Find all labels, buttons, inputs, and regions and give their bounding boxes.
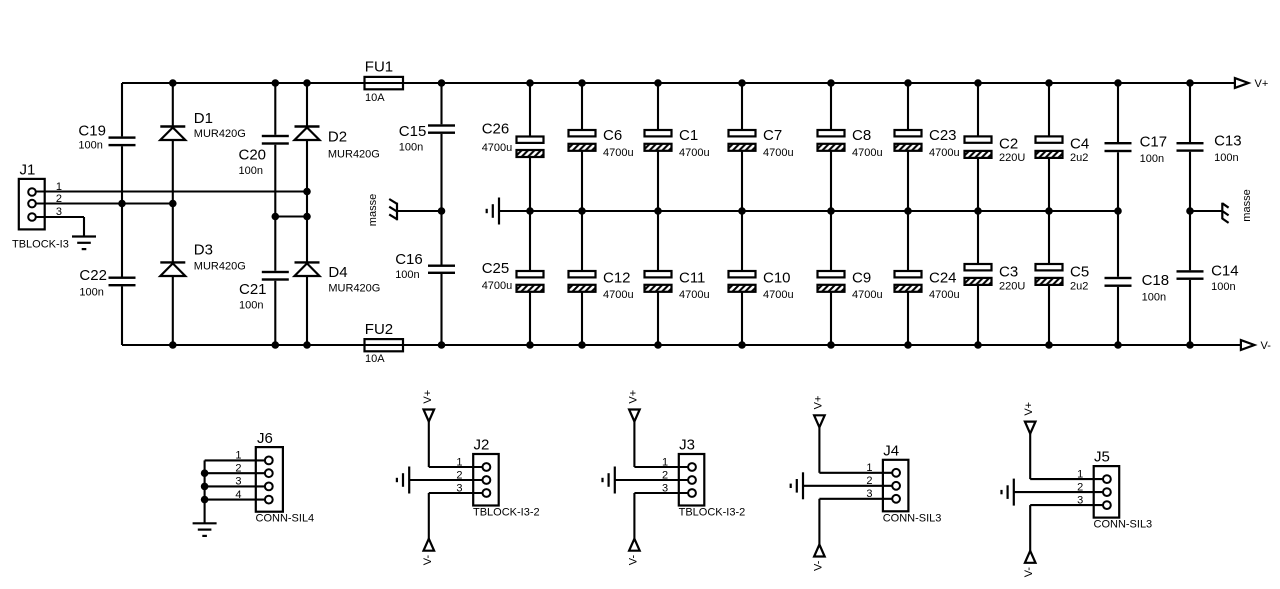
ground symbol at J6	[193, 523, 217, 536]
wire ground to J2 pin2	[409, 479, 482, 481]
svg-text:C14: C14	[1211, 263, 1239, 280]
svg-text:4700u: 4700u	[929, 147, 960, 159]
terminal V+ above J2	[424, 410, 435, 422]
terminal V- below J2	[424, 539, 435, 551]
svg-text:100n: 100n	[1214, 152, 1238, 164]
ground earth symbol at J3 pin2	[603, 467, 615, 494]
junction top bus / D1	[169, 79, 177, 87]
svg-text:C2: C2	[999, 136, 1018, 153]
svg-text:J6: J6	[257, 430, 273, 447]
svg-text:C11: C11	[679, 270, 705, 287]
svg-text:FU1: FU1	[365, 58, 393, 75]
junction J1 pin2 / C19-C22 column	[118, 200, 126, 208]
svg-text:2: 2	[456, 469, 462, 481]
svg-text:4700u: 4700u	[929, 289, 960, 301]
wire C25 column x=530.0	[529, 211, 531, 271]
wire J6 pin3	[205, 485, 265, 487]
svg-text:MUR420G: MUR420G	[328, 283, 380, 295]
svg-text:V+: V+	[422, 390, 434, 404]
svg-text:100n: 100n	[239, 300, 263, 312]
wire ground middle rail	[499, 210, 1120, 212]
terminal V+ above J4	[814, 415, 825, 427]
junction middle rail x=658.0	[654, 207, 662, 215]
junction bottom bus x=1049.0	[1045, 341, 1053, 349]
capacitor C19	[78, 123, 135, 147]
wire C13/C14 column x=1190	[1189, 83, 1191, 142]
junction bottom bus / C14	[1186, 341, 1194, 349]
wire link C20-C21 to D2-D4	[275, 215, 307, 217]
svg-text:V-: V-	[1261, 340, 1272, 352]
svg-text:C26: C26	[482, 121, 510, 138]
terminal V+ above J5	[1025, 422, 1036, 434]
svg-text:1: 1	[662, 456, 668, 468]
junction J6 pin3 / common	[201, 483, 209, 491]
capacitor C24	[895, 270, 957, 292]
svg-text:V-: V-	[422, 554, 434, 565]
svg-text:J4: J4	[883, 442, 899, 459]
svg-text:4700u: 4700u	[763, 147, 794, 159]
svg-text:100n: 100n	[79, 287, 103, 299]
wire ground to J3 pin2	[615, 479, 688, 481]
junction bottom bus / C16	[438, 341, 446, 349]
junction middle rail x=530.0	[526, 207, 534, 215]
svg-text:C8: C8	[852, 127, 871, 144]
wire C20/C21 column x=275.3	[274, 83, 276, 135]
junction bottom bus x=742.0	[738, 341, 746, 349]
svg-text:220U: 220U	[999, 281, 1025, 293]
svg-text:TBLOCK-I3: TBLOCK-I3	[12, 239, 69, 251]
ground earth symbol at J4 pin2	[791, 472, 803, 499]
capacitor C1	[645, 127, 699, 151]
svg-text:C6: C6	[603, 127, 622, 144]
junction bottom bus x=978.0	[974, 341, 982, 349]
junction C20-C21 / link wire	[272, 213, 280, 221]
svg-text:FU2: FU2	[365, 321, 393, 338]
ground masse symbol left	[389, 199, 397, 220]
svg-text:D1: D1	[194, 110, 213, 127]
terminal arrow V+	[1235, 78, 1249, 88]
capacitor C15	[399, 123, 455, 140]
capacitor C14	[1177, 263, 1239, 280]
wire J4 pin3 to V- stub	[819, 498, 892, 500]
svg-text:2: 2	[866, 475, 872, 487]
wire masse stub right	[1190, 210, 1222, 212]
svg-text:V+: V+	[627, 390, 639, 404]
wire C15/C16 column x=441.5	[440, 83, 442, 124]
wire C19/C22 column x=122	[121, 83, 123, 136]
junction link wire / D2-D4 column	[303, 213, 311, 221]
svg-text:D2: D2	[328, 129, 347, 146]
connector J1	[19, 162, 45, 230]
wire ground to J4 pin2	[803, 485, 892, 487]
svg-text:J1: J1	[20, 162, 36, 179]
svg-text:C13: C13	[1214, 133, 1242, 150]
junction top bus / C15	[438, 79, 446, 87]
wire J6 common down to ground	[204, 460, 206, 523]
ground masse symbol right	[1222, 203, 1228, 223]
capacitor C25	[482, 260, 544, 292]
capacitor C12	[569, 270, 631, 292]
wire C4 column x=1049.0	[1048, 83, 1050, 136]
capacitor C16	[395, 251, 455, 274]
svg-text:masse: masse	[367, 194, 379, 226]
svg-text:220U: 220U	[999, 152, 1025, 164]
svg-text:2u2: 2u2	[1070, 281, 1088, 293]
svg-text:C7: C7	[763, 127, 782, 144]
junction top bus / D2	[303, 79, 311, 87]
junction top bus x=658.0	[654, 79, 662, 87]
capacitor C8	[818, 127, 872, 151]
svg-text:C9: C9	[852, 270, 871, 287]
svg-text:C15: C15	[399, 123, 427, 140]
wire V- bottom bus	[122, 344, 1241, 346]
wire C1 column x=658.0	[657, 83, 659, 130]
capacitor C18	[1105, 272, 1170, 289]
wire C17/C18 column x=1118	[1117, 83, 1119, 142]
wire D1/D3 column x=172.8	[172, 83, 174, 127]
svg-text:3: 3	[662, 482, 668, 494]
svg-text:C17: C17	[1140, 133, 1168, 150]
capacitor C26	[482, 121, 544, 158]
connector J3	[679, 437, 705, 506]
terminal V- below J4	[814, 545, 825, 557]
junction bottom bus x=582.0	[578, 341, 586, 349]
junction middle rail x=1049.0	[1045, 207, 1053, 215]
svg-text:C12: C12	[603, 270, 631, 287]
capacitor C6	[569, 127, 623, 151]
connector J6	[256, 430, 283, 512]
svg-text:C21: C21	[239, 281, 267, 298]
svg-text:4700u: 4700u	[763, 289, 794, 301]
svg-text:4700u: 4700u	[482, 280, 513, 292]
wire J1 pin3 to ground	[36, 216, 84, 218]
svg-text:100n: 100n	[395, 269, 419, 281]
svg-text:C1: C1	[679, 127, 698, 144]
terminal V+ above J3	[629, 410, 640, 422]
wire C9 column x=831.0	[830, 211, 832, 271]
svg-text:C23: C23	[929, 127, 957, 144]
diode D3	[160, 242, 213, 277]
capacitor C10	[729, 270, 791, 292]
svg-text:4700u: 4700u	[603, 147, 634, 159]
junction top bus x=742.0	[738, 79, 746, 87]
wire C11 column x=658.0	[657, 211, 659, 271]
wire C5 column x=1049.0	[1048, 211, 1050, 264]
wire C7 column x=742.0	[741, 83, 743, 130]
svg-text:1: 1	[456, 456, 462, 468]
svg-text:C19: C19	[78, 123, 106, 140]
diode D1	[160, 110, 213, 140]
wire C3 column x=978.0	[977, 211, 979, 264]
junction top bus x=978.0	[974, 79, 982, 87]
junction middle rail end / C17-C18	[1114, 207, 1122, 215]
svg-text:TBLOCK-I3-2: TBLOCK-I3-2	[679, 507, 746, 519]
svg-text:C10: C10	[763, 270, 791, 287]
junction top bus x=530.0	[526, 79, 534, 87]
junction J1 pin2 / D1-D3 node	[169, 200, 177, 208]
svg-text:J3: J3	[679, 437, 695, 454]
junction bottom bus / C21	[272, 341, 280, 349]
junction top bus x=1049.0	[1045, 79, 1053, 87]
wire C12 column x=582.0	[581, 211, 583, 271]
wire J2 pin3 to V- stub	[429, 492, 483, 494]
capacitor C4	[1036, 136, 1090, 158]
junction middle rail x=908.0	[904, 207, 912, 215]
connector J5	[1094, 449, 1120, 518]
svg-text:C5: C5	[1070, 263, 1089, 280]
junction middle rail x=831.0	[827, 207, 835, 215]
svg-text:CONN-SIL3: CONN-SIL3	[883, 512, 942, 524]
svg-text:C18: C18	[1142, 272, 1170, 289]
svg-text:C4: C4	[1070, 136, 1089, 153]
terminal V- below J3	[629, 539, 640, 551]
wire V+ stub to J4 pin1	[818, 427, 820, 473]
svg-text:C22: C22	[79, 267, 107, 284]
wire C24 column x=908.0	[907, 211, 909, 271]
svg-text:J5: J5	[1094, 449, 1110, 466]
svg-text:C16: C16	[395, 251, 423, 268]
wire J6 pin4	[205, 499, 265, 501]
ground symbol at J1 pin3	[72, 237, 96, 250]
wire C10 column x=742.0	[741, 211, 743, 271]
junction top bus x=831.0	[827, 79, 835, 87]
junction bottom bus x=908.0	[904, 341, 912, 349]
svg-text:C24: C24	[929, 270, 957, 287]
junction C15-C16 column / masse stub	[438, 207, 446, 215]
capacitor C20	[239, 135, 289, 164]
svg-text:3: 3	[456, 482, 462, 494]
svg-text:V-: V-	[1023, 567, 1035, 578]
svg-text:100n: 100n	[78, 140, 102, 152]
svg-text:10A: 10A	[365, 92, 385, 104]
wire C23 column x=908.0	[907, 83, 909, 130]
svg-text:V-: V-	[812, 560, 824, 571]
svg-text:1: 1	[1077, 468, 1083, 480]
diode D2	[295, 127, 348, 146]
svg-text:V+: V+	[812, 396, 824, 410]
wire V+ stub to J2 pin1	[428, 422, 430, 468]
svg-text:C20: C20	[239, 147, 267, 164]
svg-text:C25: C25	[482, 260, 510, 277]
capacitor C5	[1036, 263, 1090, 285]
svg-text:D4: D4	[328, 264, 347, 281]
terminal arrow V-	[1241, 340, 1255, 350]
ground earth symbol at J2 pin2	[397, 467, 409, 494]
junction top bus / C17	[1114, 79, 1122, 87]
wire J1 pin2 to D1/D3 node	[36, 202, 173, 204]
capacitor C9	[818, 270, 872, 292]
svg-text:100n: 100n	[1140, 153, 1164, 165]
junction top bus / C20	[272, 79, 280, 87]
wire ground to J5 pin2	[1014, 491, 1103, 493]
wire J3 pin3 to V- stub	[634, 492, 688, 494]
svg-text:2u2: 2u2	[1070, 152, 1088, 164]
junction C13-C14 column / masse stub right	[1186, 207, 1194, 215]
svg-text:3: 3	[1077, 494, 1083, 506]
svg-text:4700u: 4700u	[679, 289, 710, 301]
junction top bus / C13	[1186, 79, 1194, 87]
wire masse stub to C15/C16 column	[397, 210, 442, 212]
svg-text:10A: 10A	[365, 353, 385, 365]
svg-text:D3: D3	[194, 242, 213, 259]
wire V+ stub to J5 pin1	[1029, 434, 1031, 480]
wire C8 column x=831.0	[830, 83, 832, 130]
wire C6 column x=582.0	[581, 83, 583, 130]
ground earth symbol left end of middle rail	[487, 198, 499, 225]
connector J4	[883, 442, 909, 511]
capacitor C3	[965, 263, 1019, 285]
capacitor C11	[645, 270, 706, 292]
junction bottom bus / D4	[303, 341, 311, 349]
junction bottom bus x=530.0	[526, 341, 534, 349]
svg-text:100n: 100n	[399, 141, 423, 153]
capacitor C17	[1105, 133, 1168, 152]
junction J6 pin4 / common	[201, 496, 209, 504]
wire C26 column x=530.0	[529, 83, 531, 137]
svg-text:4700u: 4700u	[603, 289, 634, 301]
wire J6 pin2	[205, 472, 265, 474]
junction bottom bus x=658.0	[654, 341, 662, 349]
svg-text:C3: C3	[999, 263, 1018, 280]
svg-text:4700u: 4700u	[852, 289, 883, 301]
capacitor C2	[965, 136, 1019, 158]
junction top bus x=582.0	[578, 79, 586, 87]
terminal V- below J5	[1025, 551, 1036, 563]
svg-text:4700u: 4700u	[852, 147, 883, 159]
svg-text:V+: V+	[1023, 402, 1035, 416]
svg-text:100n: 100n	[1211, 281, 1235, 293]
capacitor C23	[895, 127, 957, 151]
svg-text:MUR420G: MUR420G	[194, 128, 246, 140]
wire V+ stub to J3 pin1	[633, 422, 635, 468]
svg-text:3: 3	[866, 488, 872, 500]
connector J2	[473, 437, 499, 506]
junction middle rail x=742.0	[738, 207, 746, 215]
svg-text:4700u: 4700u	[679, 147, 710, 159]
wire J5 pin3 to V- stub	[1030, 504, 1103, 506]
wire D2/D4 column x=307	[306, 83, 308, 127]
svg-text:MUR420G: MUR420G	[194, 261, 246, 273]
svg-text:1: 1	[866, 462, 872, 474]
fuse FU1	[365, 58, 404, 89]
svg-text:2: 2	[662, 469, 668, 481]
junction middle rail x=978.0	[974, 207, 982, 215]
svg-text:100n: 100n	[1142, 292, 1166, 304]
junction J1 pin1 / D2-D4 node	[303, 188, 311, 196]
svg-text:CONN-SIL4: CONN-SIL4	[256, 513, 315, 525]
wire C2 column x=978.0	[977, 83, 979, 136]
svg-text:2: 2	[1077, 481, 1083, 493]
junction bottom bus / D3	[169, 341, 177, 349]
svg-text:CONN-SIL3: CONN-SIL3	[1094, 519, 1153, 531]
wire V+ top bus	[122, 82, 1235, 84]
svg-text:100n: 100n	[239, 165, 263, 177]
wire J6 pin1	[205, 459, 265, 461]
svg-text:MUR420G: MUR420G	[328, 149, 380, 161]
junction middle rail x=582.0	[578, 207, 586, 215]
capacitor C7	[729, 127, 783, 151]
svg-text:masse: masse	[1241, 189, 1253, 221]
ground earth symbol at J5 pin2	[1002, 479, 1014, 506]
diode D4	[295, 262, 348, 281]
svg-text:V-: V-	[627, 554, 639, 565]
wire J1 pin1 to D2/D4 node	[36, 190, 307, 192]
svg-text:4700u: 4700u	[482, 142, 513, 154]
capacitor C13	[1177, 133, 1242, 152]
capacitor C21	[239, 271, 289, 298]
junction top bus x=908.0	[904, 79, 912, 87]
svg-text:TBLOCK-I3-2: TBLOCK-I3-2	[473, 507, 540, 519]
svg-text:J2: J2	[474, 437, 490, 454]
junction J6 pin2 / common	[201, 469, 209, 477]
capacitor C22	[79, 267, 135, 286]
svg-text:V+: V+	[1255, 78, 1269, 90]
junction bottom bus x=831.0	[827, 341, 835, 349]
junction bottom bus / C18	[1114, 341, 1122, 349]
fuse FU2	[365, 321, 404, 351]
